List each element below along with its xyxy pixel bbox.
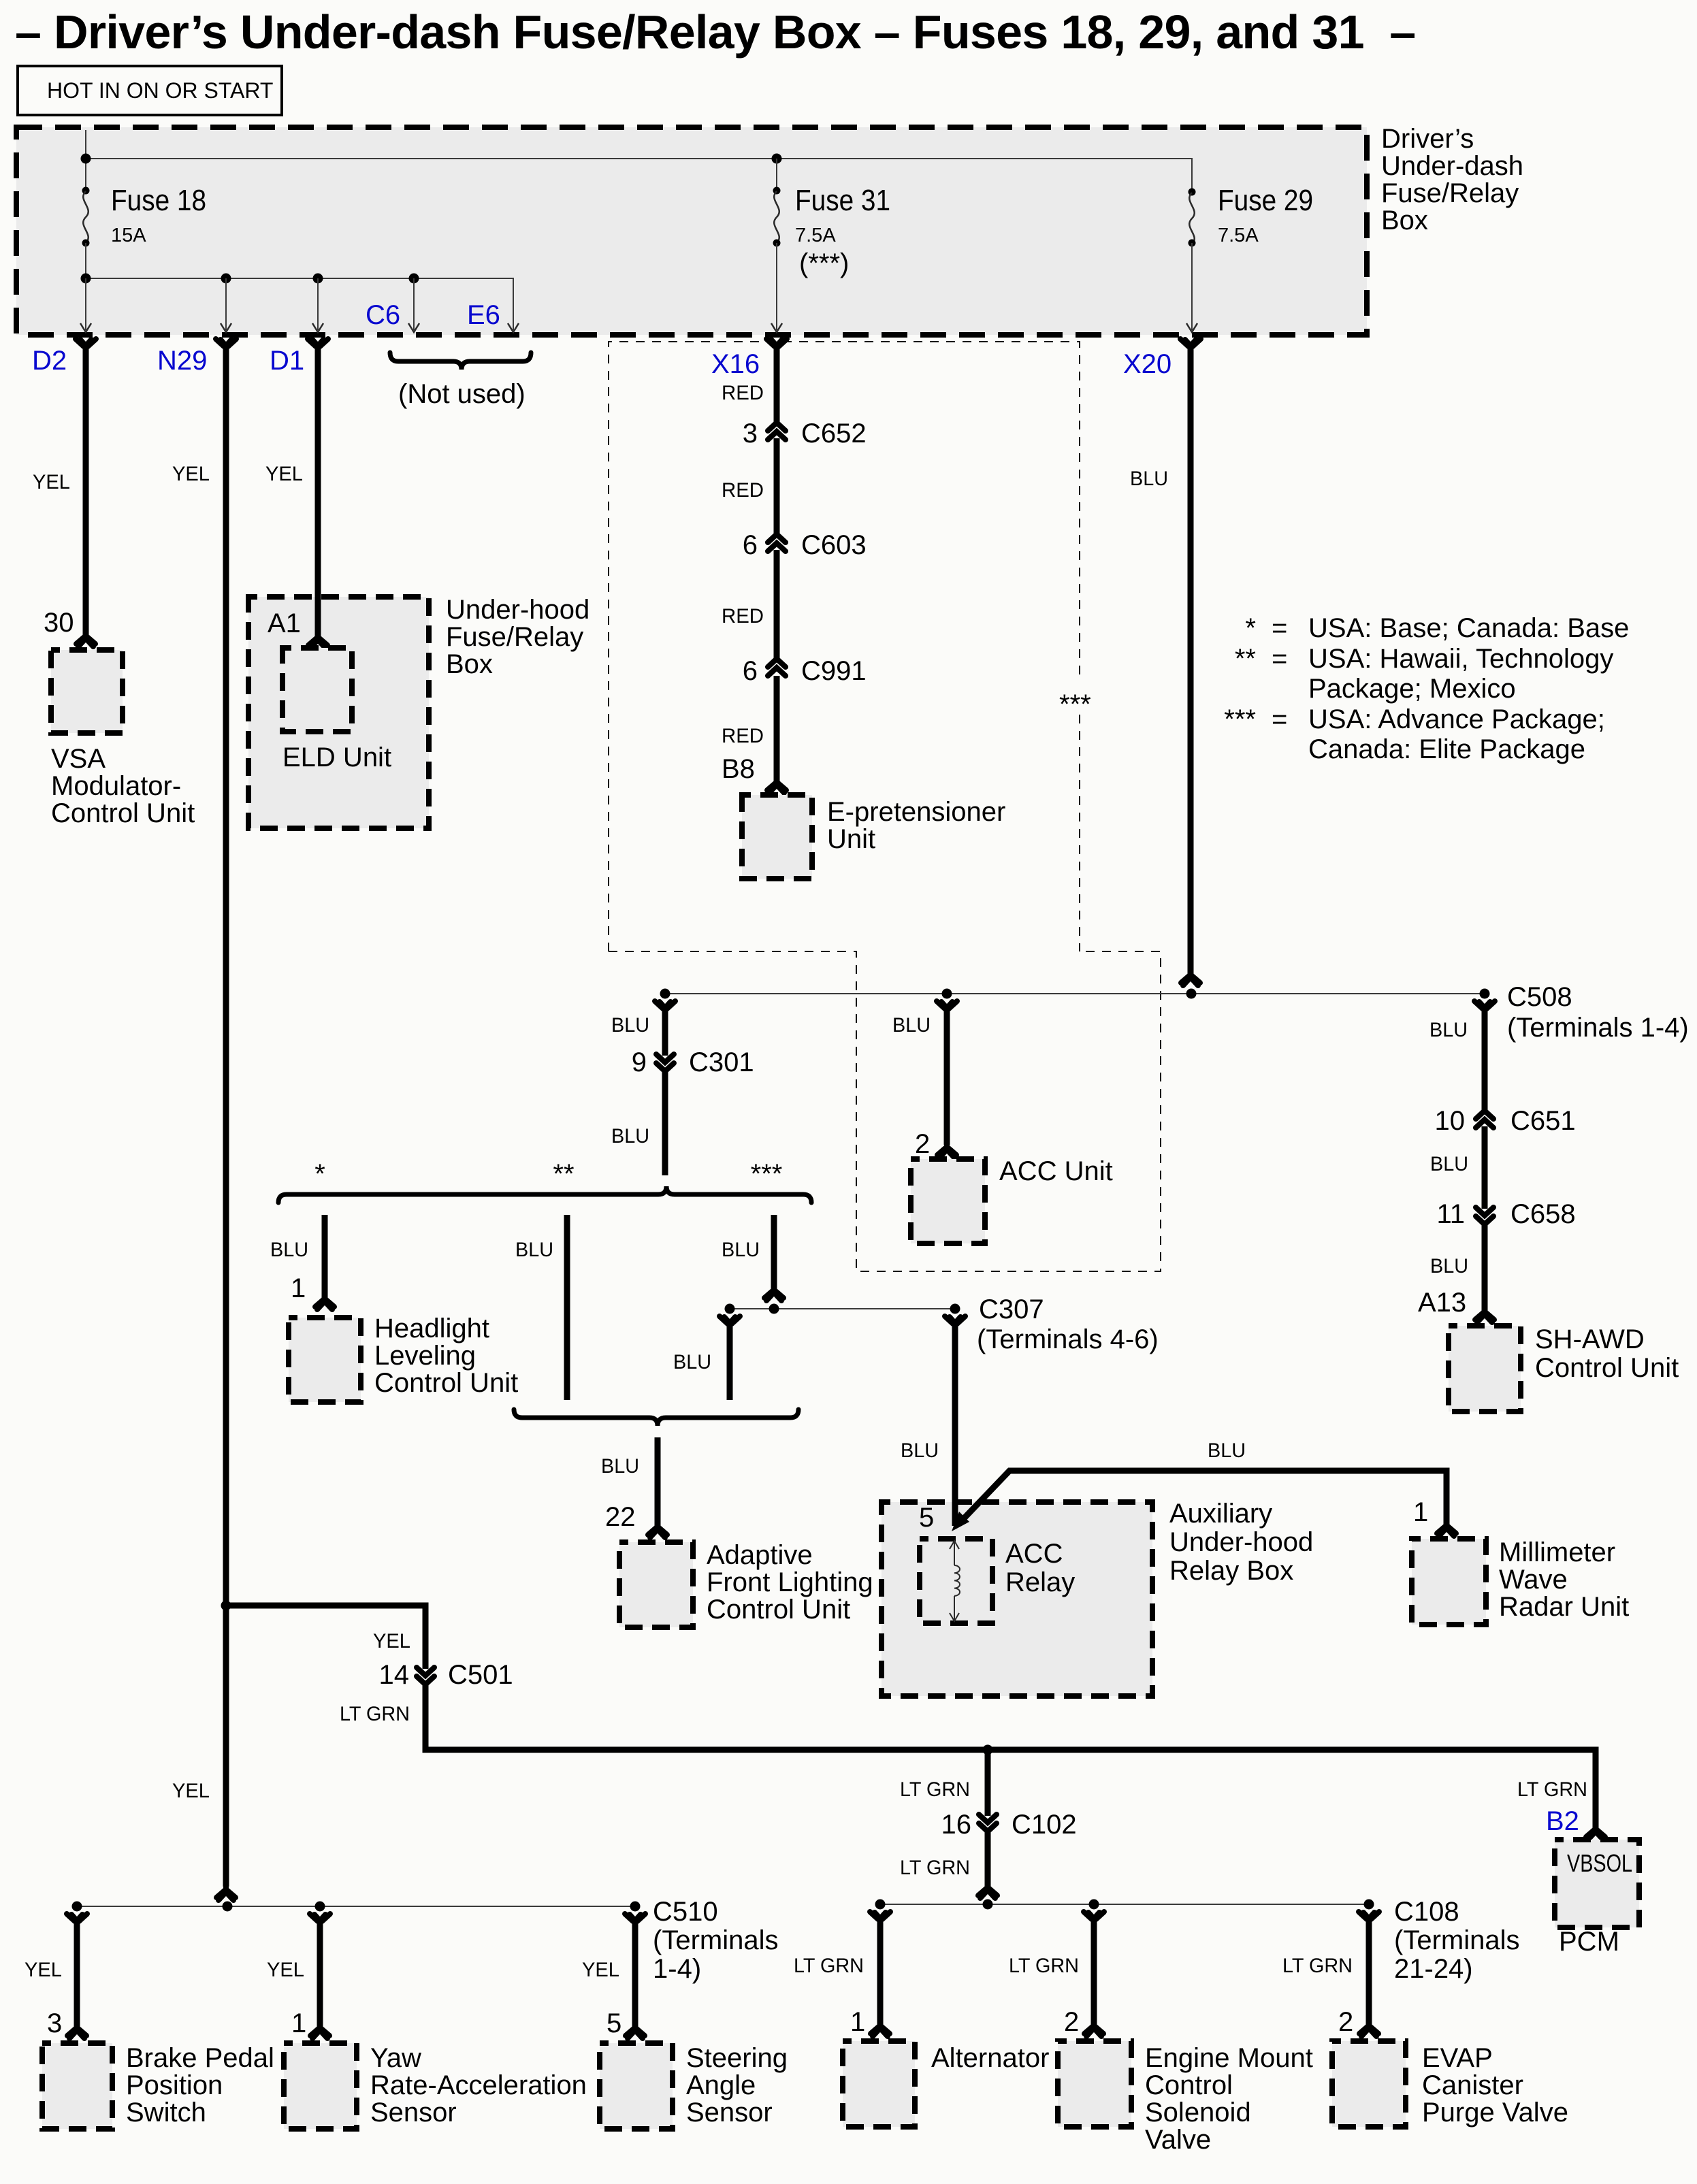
svg-text:5: 5 xyxy=(919,1503,934,1533)
svg-text:Box: Box xyxy=(446,649,493,679)
svg-text:RED: RED xyxy=(722,479,764,502)
svg-text:3: 3 xyxy=(47,2008,62,2038)
svg-text:Valve: Valve xyxy=(1145,2125,1211,2155)
wire to fuse 31 xyxy=(776,159,777,189)
arrow at N29 exit xyxy=(221,323,231,332)
svg-text:ACC Unit: ACC Unit xyxy=(999,1156,1113,1186)
svg-text:6: 6 xyxy=(743,656,758,686)
Millimeter Wave Radar Unit xyxy=(1412,1539,1486,1625)
svg-text:Switch: Switch xyxy=(126,2098,206,2128)
svg-text:Modulator-: Modulator- xyxy=(51,771,181,801)
fuse F31 xyxy=(773,187,781,195)
svg-text:LT GRN: LT GRN xyxy=(900,1778,970,1801)
svg-text:YEL: YEL xyxy=(172,463,210,485)
svg-text:Box: Box xyxy=(1381,206,1428,235)
svg-text:Purge Valve: Purge Valve xyxy=(1422,2098,1568,2128)
svg-text:N29: N29 xyxy=(157,346,207,376)
svg-text:Control Unit: Control Unit xyxy=(51,798,195,828)
relay coil xyxy=(954,1541,955,1621)
svg-text:Sensor: Sensor xyxy=(370,2098,457,2128)
svg-text:Control Unit: Control Unit xyxy=(374,1368,518,1398)
svg-text:BLU: BLU xyxy=(611,1125,649,1147)
svg-text:RED: RED xyxy=(722,605,764,628)
svg-text:=: = xyxy=(1272,704,1287,734)
fuse F29 xyxy=(1189,189,1196,196)
svg-text:LT GRN: LT GRN xyxy=(900,1857,970,1879)
connector at steering sensor branch xyxy=(625,1914,645,1924)
svg-text:BLU: BLU xyxy=(901,1439,939,1462)
svg-text:5: 5 xyxy=(607,2008,621,2038)
connector pin 1 xyxy=(871,2023,890,2036)
svg-text:Wave: Wave xyxy=(1499,1565,1568,1595)
junction C102 branch xyxy=(983,1745,993,1755)
connector pin 1 xyxy=(310,2025,329,2038)
svg-text:C307: C307 xyxy=(979,1294,1044,1324)
wire D1 to ELD unit (YEL) xyxy=(315,344,321,636)
svg-text:C991: C991 xyxy=(801,656,867,686)
wire to C102 (LT GRN) xyxy=(985,1750,991,1816)
Driver's Under-dash Fuse/Relay Box (dashed) xyxy=(16,127,1367,335)
svg-text:**: ** xyxy=(1235,644,1256,674)
connector at engine mount branch xyxy=(1084,1912,1104,1922)
junction C108 xyxy=(1364,1900,1374,1910)
svg-text:(Not used): (Not used) xyxy=(398,379,526,409)
svg-text:2: 2 xyxy=(915,1129,930,1159)
connector pin 2 xyxy=(1359,2023,1378,2036)
wire N29 (YEL) xyxy=(223,344,229,1887)
svg-text:E-pretensioner: E-pretensioner xyxy=(827,797,1005,827)
connector pin A1 xyxy=(308,635,327,648)
connector at yaw sensor branch xyxy=(310,1914,330,1924)
svg-text:D1: D1 xyxy=(270,346,304,376)
fuse F18 xyxy=(82,187,90,195)
Alternator xyxy=(843,2041,915,2127)
svg-text:BLU: BLU xyxy=(673,1351,711,1373)
svg-text:Rate-Acceleration: Rate-Acceleration xyxy=(370,2070,587,2100)
connector X16 xyxy=(766,339,787,349)
svg-text:Alternator: Alternator xyxy=(931,2043,1049,2073)
svg-text:Auxiliary: Auxiliary xyxy=(1169,1499,1272,1529)
svg-text:BLU: BLU xyxy=(722,1239,760,1261)
PCM xyxy=(1555,1840,1639,1927)
Yaw Rate-Acceleration Sensor xyxy=(284,2043,357,2129)
svg-text:15A: 15A xyxy=(111,225,146,246)
svg-text:– Driver’s Under-dash Fuse/Rel: – Driver’s Under-dash Fuse/Relay Box – F… xyxy=(15,5,1416,59)
junction AFL branch xyxy=(725,1304,735,1314)
Adaptive Front Lighting Control Unit xyxy=(619,1542,693,1627)
connector C501 xyxy=(417,1667,434,1684)
junction D2 drop xyxy=(81,274,91,284)
svg-text:Fuse 31: Fuse 31 xyxy=(795,184,890,217)
svg-text:LT GRN: LT GRN xyxy=(1517,1778,1587,1801)
junction alternator branch xyxy=(875,1900,886,1910)
junction N29 drop xyxy=(221,274,231,284)
svg-text:Leveling: Leveling xyxy=(374,1341,476,1371)
svg-text:YEL: YEL xyxy=(25,1959,62,1981)
connector pin A13 xyxy=(1475,1309,1494,1322)
svg-text:LT GRN: LT GRN xyxy=(1009,1955,1079,1977)
svg-text:C301: C301 xyxy=(689,1047,754,1077)
junction N29 wire xyxy=(223,1902,233,1912)
svg-text:HOT IN ON OR START: HOT IN ON OR START xyxy=(47,78,273,103)
connector pin 22 xyxy=(648,1525,667,1537)
svg-text:C501: C501 xyxy=(448,1660,513,1690)
svg-text:Yaw: Yaw xyxy=(370,2043,421,2073)
svg-text:VBSOL: VBSOL xyxy=(1567,1849,1632,1877)
lower bus wire xyxy=(86,278,513,330)
svg-text:2: 2 xyxy=(1338,2007,1353,2037)
VSA Modulator-Control Unit xyxy=(51,650,123,733)
svg-text:BLU: BLU xyxy=(1208,1439,1246,1462)
connector pin 1 xyxy=(1437,1523,1456,1536)
wire to brake switch (YEL) xyxy=(74,1921,80,2027)
svg-text:**: ** xyxy=(553,1159,574,1189)
svg-text:=: = xyxy=(1272,613,1287,643)
svg-text:C6: C6 xyxy=(366,300,400,330)
svg-text:BLU: BLU xyxy=(892,1014,931,1037)
ELD Unit xyxy=(282,648,352,732)
wire C307 into relay box xyxy=(952,1501,958,1526)
svg-text:C508: C508 xyxy=(1507,982,1572,1012)
svg-text:Radar Unit: Radar Unit xyxy=(1499,1592,1629,1622)
svg-text:Fuse 18: Fuse 18 xyxy=(111,184,206,217)
junction ACC branch xyxy=(942,989,952,999)
EVAP Canister Purge Valve xyxy=(1332,2041,1406,2127)
svg-text:Angle: Angle xyxy=(686,2070,756,2100)
wire to EVAP valve (LT GRN) xyxy=(1366,1919,1372,2025)
connector N29 xyxy=(216,339,236,349)
Engine Mount Control Solenoid Valve xyxy=(1058,2041,1131,2127)
junction C102 wire xyxy=(983,1900,993,1910)
svg-text:Front Lighting: Front Lighting xyxy=(707,1567,873,1597)
svg-text:2: 2 xyxy=(1064,2007,1079,2037)
wire radar to ACC relay (BLU) xyxy=(965,1471,1447,1525)
connector D1 xyxy=(308,339,328,349)
svg-text:Package; Mexico: Package; Mexico xyxy=(1308,674,1516,704)
svg-text:EVAP: EVAP xyxy=(1422,2043,1493,2073)
svg-text:7.5A: 7.5A xyxy=(795,225,836,246)
svg-text:YEL: YEL xyxy=(33,471,70,493)
svg-text:***: *** xyxy=(1059,689,1091,719)
connector at C108 line xyxy=(978,1885,997,1898)
svg-text:YEL: YEL xyxy=(267,1959,304,1981)
svg-text:VSA: VSA xyxy=(51,744,106,774)
junction D1 drop xyxy=(313,274,323,284)
svg-text:Fuse/Relay: Fuse/Relay xyxy=(1381,178,1519,208)
svg-text:BLU: BLU xyxy=(1130,468,1168,490)
wire X20 (BLU) xyxy=(1188,344,1194,974)
svg-text:Driver’s: Driver’s xyxy=(1381,124,1474,154)
connector at ACC branch xyxy=(937,1001,957,1011)
arrow at E6 exit xyxy=(508,323,519,332)
svg-text:Canada: Elite Package: Canada: Elite Package xyxy=(1308,734,1585,764)
wire fuse 29 to X20 xyxy=(1191,243,1193,330)
connector pin B2 xyxy=(1586,1827,1605,1840)
svg-text:USA: Hawaii, Technology: USA: Hawaii, Technology xyxy=(1308,644,1613,674)
svg-text:22: 22 xyxy=(605,1502,636,1532)
junction yaw sensor branch xyxy=(315,1902,325,1912)
svg-text:30: 30 xyxy=(44,608,74,638)
svg-text:(Terminals: (Terminals xyxy=(1394,1925,1519,1955)
wire to C301 (BLU) xyxy=(662,1008,668,1056)
svg-text:Solenoid: Solenoid xyxy=(1145,2098,1251,2128)
svg-text:Control: Control xyxy=(1145,2070,1233,2100)
svg-text:C652: C652 xyxy=(801,419,867,449)
wire to steering sensor (YEL) xyxy=(632,1921,639,2027)
wire C658 to SH-AWD (BLU) xyxy=(1482,1224,1488,1311)
svg-text:1-4): 1-4) xyxy=(653,1954,701,1984)
svg-text:ACC: ACC xyxy=(1005,1539,1063,1569)
connector pin 1 xyxy=(315,1297,334,1309)
svg-text:7.5A: 7.5A xyxy=(1218,225,1259,246)
wire (RED) xyxy=(774,550,780,660)
HOT IN ON OR START box xyxy=(18,66,282,115)
svg-text:Fuse 29: Fuse 29 xyxy=(1218,184,1313,217)
svg-text:1: 1 xyxy=(291,2008,306,2038)
svg-text:14: 14 xyxy=(379,1660,410,1690)
connector pin 2 xyxy=(1084,2023,1103,2036)
connector C307 xyxy=(945,1316,965,1326)
svg-text:RED: RED xyxy=(722,725,764,747)
svg-text:C510: C510 xyxy=(653,1897,718,1927)
junction fuse 18 tap xyxy=(81,154,91,164)
svg-text:Millimeter: Millimeter xyxy=(1499,1537,1615,1567)
svg-text:C108: C108 xyxy=(1394,1897,1459,1927)
junction engine mount branch xyxy=(1089,1900,1099,1910)
svg-text:Unit: Unit xyxy=(827,824,875,854)
wire D2 to VSA unit (YEL) xyxy=(83,344,89,635)
svg-text:X16: X16 xyxy=(711,349,760,379)
svg-text:YEL: YEL xyxy=(373,1630,410,1652)
Brake Pedal Position Switch xyxy=(42,2043,112,2129)
wire fuse 31 to X16 xyxy=(776,243,777,330)
svg-text:A13: A13 xyxy=(1418,1288,1466,1318)
connector below AFL branch xyxy=(720,1316,740,1326)
svg-text:Under-hood: Under-hood xyxy=(1169,1527,1313,1557)
svg-text:C102: C102 xyxy=(1012,1810,1077,1840)
option region dashed outline (X16) xyxy=(609,342,1080,951)
wire to ACC unit (BLU) xyxy=(944,1008,950,1145)
svg-text:***: *** xyxy=(1224,704,1256,734)
junction X20 to bus xyxy=(1186,989,1197,999)
svg-text:B8: B8 xyxy=(722,754,755,784)
connector C508 xyxy=(1474,1001,1495,1011)
arrowhead at pin 5 xyxy=(952,1512,969,1531)
svg-text:YEL: YEL xyxy=(582,1959,619,1981)
wire fuse 18 to lower bus xyxy=(85,243,86,278)
connector at C301 branch xyxy=(655,1001,675,1011)
svg-text:Brake Pedal: Brake Pedal xyxy=(126,2043,274,2073)
svg-text:C603: C603 xyxy=(801,530,867,560)
ACC Unit xyxy=(911,1159,985,1243)
svg-text:Adaptive: Adaptive xyxy=(707,1540,813,1570)
arrow at C6 exit xyxy=(408,323,419,332)
svg-text:C658: C658 xyxy=(1510,1199,1576,1229)
svg-text:6: 6 xyxy=(743,530,758,560)
svg-text:10: 10 xyxy=(1435,1106,1466,1136)
svg-text:1: 1 xyxy=(1413,1497,1428,1527)
Under-hood Fuse/Relay Box xyxy=(248,597,429,828)
svg-text:LT GRN: LT GRN xyxy=(340,1703,410,1725)
svg-text:Headlight: Headlight xyxy=(374,1314,489,1343)
svg-text:Under-dash: Under-dash xyxy=(1381,151,1523,181)
wire C307 node line xyxy=(730,1308,955,1309)
svg-text:*: * xyxy=(1245,613,1256,643)
svg-text:BLU: BLU xyxy=(611,1014,649,1037)
svg-text:BLU: BLU xyxy=(270,1239,308,1261)
arrow at D2 exit xyxy=(80,323,91,332)
connector N29 at C510 line xyxy=(216,1887,236,1900)
svg-text:D2: D2 xyxy=(32,346,67,376)
connector pin 30 xyxy=(76,634,95,647)
svg-text:(Terminals: (Terminals xyxy=(653,1925,778,1955)
svg-text:*: * xyxy=(314,1159,325,1189)
wire to AFL control unit (BLU) xyxy=(655,1437,661,1526)
junction brake switch branch xyxy=(72,1902,82,1912)
svg-text:Canister: Canister xyxy=(1422,2070,1523,2100)
label VBSOL xyxy=(1563,1846,1631,1873)
svg-text:Under-hood: Under-hood xyxy=(446,595,589,625)
Headlight Leveling Control Unit xyxy=(289,1318,361,1402)
connector C651 xyxy=(1476,1111,1493,1128)
wire C301 to brace (BLU) xyxy=(662,1071,668,1175)
wire drop to D2 xyxy=(85,278,86,330)
svg-text:1: 1 xyxy=(850,2007,865,2037)
wire option ** (BLU) xyxy=(564,1215,570,1400)
svg-text:Sensor: Sensor xyxy=(686,2098,773,2128)
svg-text:Relay: Relay xyxy=(1005,1567,1075,1597)
svg-text:LT GRN: LT GRN xyxy=(794,1955,864,1977)
wire (RED) xyxy=(774,676,780,781)
wire X16 (RED) xyxy=(774,344,780,423)
relay K1 ACC Relay xyxy=(920,1539,992,1623)
connector pin B8 xyxy=(767,780,786,793)
svg-text:Control Unit: Control Unit xyxy=(1535,1353,1679,1383)
svg-text:(Terminals 4-6): (Terminals 4-6) xyxy=(977,1324,1159,1354)
svg-text:SH-AWD: SH-AWD xyxy=(1535,1324,1645,1354)
wire C501 to PCM (LT GRN) xyxy=(425,1684,1596,1829)
connector D2 xyxy=(76,339,96,349)
wire to engine mount valve (LT GRN) xyxy=(1091,1919,1097,2025)
arrow at X20 exit xyxy=(1186,323,1197,332)
svg-text:BLU: BLU xyxy=(601,1455,639,1478)
svg-text:Relay Box: Relay Box xyxy=(1169,1556,1293,1586)
svg-text:Engine Mount: Engine Mount xyxy=(1145,2043,1313,2073)
svg-text:21-24): 21-24) xyxy=(1394,1954,1473,1984)
svg-text:Steering: Steering xyxy=(686,2043,788,2073)
junction C6 drop xyxy=(409,274,419,284)
wire C508 to C651 (BLU) xyxy=(1482,1008,1488,1111)
junction *** wire xyxy=(769,1304,779,1314)
wire C108 node line xyxy=(880,1904,1369,1905)
svg-text:3: 3 xyxy=(743,419,758,449)
svg-text:PCM: PCM xyxy=(1559,1927,1619,1957)
svg-text:ELD Unit: ELD Unit xyxy=(282,743,391,772)
connector X20 xyxy=(1180,339,1201,349)
wire to alternator (LT GRN) xyxy=(877,1919,884,2025)
svg-text:=: = xyxy=(1272,644,1287,674)
connector at brake switch branch xyxy=(67,1914,87,1924)
svg-text:RED: RED xyxy=(722,382,764,404)
svg-text:YEL: YEL xyxy=(172,1780,210,1802)
svg-text:LT GRN: LT GRN xyxy=(1282,1955,1353,1977)
junction C510 xyxy=(630,1902,641,1912)
connector at C307 node xyxy=(764,1288,783,1301)
wire drop to N29 xyxy=(225,278,227,330)
E-pretensioner Unit xyxy=(742,795,812,879)
wire C102 to C108 line (LT GRN) xyxy=(985,1831,991,1887)
svg-text:(***): (***) xyxy=(799,248,849,278)
svg-text:BLU: BLU xyxy=(515,1239,553,1261)
svg-text:Control Unit: Control Unit xyxy=(707,1595,850,1625)
connector C652 xyxy=(768,423,786,440)
bus wire (hot feed) xyxy=(86,159,1192,189)
svg-text:11: 11 xyxy=(1436,1199,1465,1229)
wire option *** (BLU) xyxy=(771,1215,777,1289)
Steering Angle Sensor xyxy=(600,2043,673,2129)
SH-AWD Control Unit xyxy=(1449,1326,1521,1412)
wire option * to headlight (BLU) xyxy=(322,1215,328,1298)
svg-text:Position: Position xyxy=(126,2070,223,2100)
svg-text:BLU: BLU xyxy=(1430,1153,1468,1175)
svg-text:16: 16 xyxy=(941,1810,972,1840)
svg-text:A1: A1 xyxy=(268,608,301,638)
svg-text:9: 9 xyxy=(632,1047,647,1077)
svg-text:BLU: BLU xyxy=(1429,1019,1468,1041)
wire to yaw sensor (YEL) xyxy=(317,1921,323,2027)
connector C658 xyxy=(1476,1207,1493,1224)
svg-text:X20: X20 xyxy=(1123,349,1171,379)
connector at X20 wire end xyxy=(1181,973,1200,985)
connector at EVAP branch xyxy=(1359,1912,1379,1922)
connector C301 xyxy=(656,1054,674,1071)
svg-text:USA: Base; Canada: Base: USA: Base; Canada: Base xyxy=(1308,613,1629,643)
arrow at D1 exit xyxy=(312,323,323,332)
option region dashed outline (ACC) xyxy=(609,951,1161,1271)
wire C307 to ACC relay (BLU) xyxy=(952,1323,958,1526)
wire C510 node line xyxy=(77,1906,635,1907)
Auxiliary Under-hood Relay Box xyxy=(882,1502,1152,1696)
svg-text:USA: Advance Package;: USA: Advance Package; xyxy=(1308,704,1605,734)
junction C301 branch xyxy=(660,989,670,999)
junction fuse 31 tap xyxy=(772,154,782,164)
brace AFL merge xyxy=(514,1409,798,1426)
svg-text:C651: C651 xyxy=(1510,1106,1576,1136)
distribution bus wire (BLU) xyxy=(665,993,1485,994)
svg-text:YEL: YEL xyxy=(265,463,303,485)
brace (not used) xyxy=(390,353,531,370)
connector pin 5 xyxy=(626,2025,645,2038)
note *** xyxy=(1054,681,1093,708)
connector C991 xyxy=(768,659,786,676)
connector pin 3 xyxy=(67,2025,86,2038)
connector at alternator branch xyxy=(870,1912,890,1922)
connector C603 xyxy=(768,534,786,551)
svg-text:1: 1 xyxy=(291,1273,306,1303)
junction C508 branch xyxy=(1480,989,1490,999)
wire N29 to C501 (YEL) xyxy=(226,1606,425,1669)
connector pin 2 xyxy=(937,1145,956,1158)
svg-text:B2: B2 xyxy=(1546,1806,1579,1836)
svg-text:E6: E6 xyxy=(467,300,500,330)
svg-text:BLU: BLU xyxy=(1430,1255,1468,1277)
junction N29 to C501 xyxy=(221,1601,231,1611)
arrow at X16 exit xyxy=(771,323,782,332)
wire C651 to C658 (BLU) xyxy=(1482,1126,1488,1209)
svg-text:(Terminals 1-4): (Terminals 1-4) xyxy=(1507,1013,1689,1043)
wire drop to C6 xyxy=(413,278,415,330)
svg-text:***: *** xyxy=(751,1159,783,1189)
